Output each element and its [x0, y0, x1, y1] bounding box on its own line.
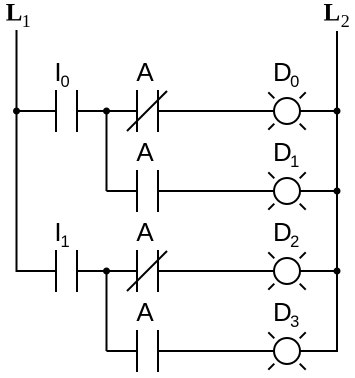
svg-text:A: A [136, 217, 154, 247]
svg-text:D: D [273, 217, 292, 247]
svg-text:D: D [273, 57, 292, 87]
svg-text:L: L [324, 0, 341, 27]
svg-text:0: 0 [290, 73, 299, 91]
svg-text:0: 0 [61, 73, 70, 91]
svg-text:A: A [136, 137, 154, 167]
svg-text:1: 1 [61, 233, 70, 251]
svg-text:2: 2 [290, 233, 299, 251]
svg-text:1: 1 [22, 11, 31, 31]
svg-text:3: 3 [290, 313, 299, 331]
svg-text:L: L [6, 0, 23, 27]
svg-text:D: D [273, 137, 292, 167]
svg-text:D: D [273, 297, 292, 327]
svg-text:1: 1 [290, 153, 299, 171]
svg-text:A: A [136, 57, 154, 87]
svg-text:A: A [136, 297, 154, 327]
svg-text:2: 2 [341, 11, 350, 31]
